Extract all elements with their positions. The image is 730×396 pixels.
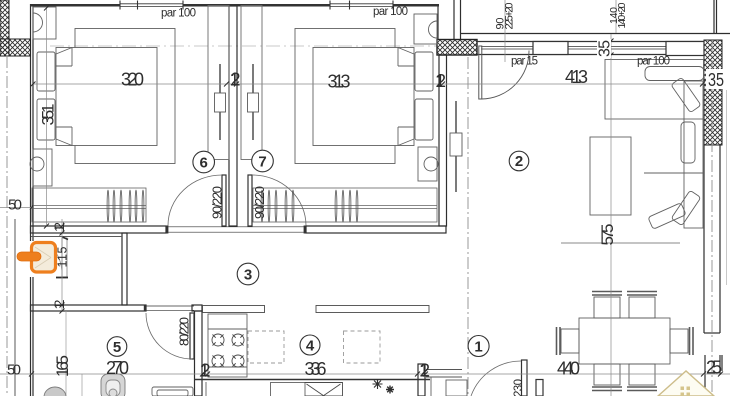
svg-text:351: 351 bbox=[39, 104, 58, 126]
svg-text:50: 50 bbox=[8, 197, 22, 214]
svg-text:270: 270 bbox=[106, 358, 129, 378]
svg-text:320: 320 bbox=[121, 70, 144, 90]
svg-text:165: 165 bbox=[53, 355, 72, 377]
svg-text:2: 2 bbox=[515, 153, 523, 170]
svg-text:6: 6 bbox=[200, 155, 208, 172]
svg-text:115: 115 bbox=[56, 246, 70, 267]
svg-text:12: 12 bbox=[435, 71, 446, 91]
svg-text:140+20: 140+20 bbox=[616, 2, 628, 28]
svg-text:1: 1 bbox=[474, 339, 482, 356]
svg-text:230: 230 bbox=[513, 379, 525, 396]
svg-text:12: 12 bbox=[230, 70, 241, 90]
svg-text:90/220: 90/220 bbox=[252, 186, 267, 219]
svg-text:80/220: 80/220 bbox=[177, 317, 192, 346]
svg-text:12: 12 bbox=[51, 222, 67, 232]
svg-text:par 100: par 100 bbox=[373, 6, 408, 18]
svg-text:313: 313 bbox=[328, 72, 351, 92]
svg-text:90/220: 90/220 bbox=[210, 186, 225, 219]
svg-text:35: 35 bbox=[708, 70, 724, 90]
svg-text:35: 35 bbox=[597, 40, 614, 57]
svg-text:par 100: par 100 bbox=[637, 56, 670, 68]
svg-text:575: 575 bbox=[598, 224, 617, 246]
svg-text:4: 4 bbox=[306, 338, 315, 355]
svg-text:par 15: par 15 bbox=[511, 56, 538, 68]
svg-text:413: 413 bbox=[565, 67, 588, 87]
svg-text:12: 12 bbox=[419, 361, 430, 381]
svg-text:12: 12 bbox=[200, 361, 211, 381]
svg-text:25: 25 bbox=[706, 358, 722, 378]
svg-text:440: 440 bbox=[557, 359, 580, 379]
svg-text:5: 5 bbox=[113, 339, 121, 356]
svg-text:336: 336 bbox=[305, 359, 327, 379]
svg-text:par 100: par 100 bbox=[161, 8, 196, 20]
svg-text:12: 12 bbox=[51, 299, 67, 309]
svg-text:7: 7 bbox=[258, 154, 266, 171]
svg-text:3: 3 bbox=[244, 267, 252, 284]
svg-text:50: 50 bbox=[7, 362, 21, 379]
svg-text:225+20: 225+20 bbox=[504, 3, 516, 30]
